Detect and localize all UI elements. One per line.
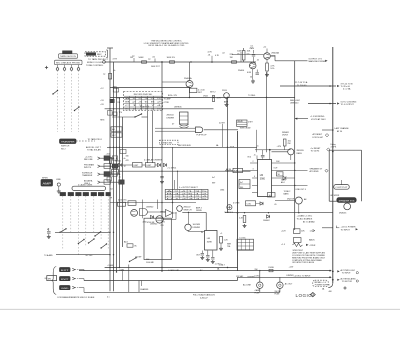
- svg-text:TO TAPE PROJ: TO TAPE PROJ: [88, 138, 102, 141]
- svg-text:IN: IN: [201, 232, 204, 234]
- svg-text:OUT: OUT: [196, 254, 201, 256]
- connector T7: [106, 192, 111, 195]
- svg-text:+12V: +12V: [289, 266, 294, 268]
- wire W-162: [161, 61, 162, 272]
- svg-text:4.7K: 4.7K: [234, 171, 239, 173]
- wire W-295: [294, 61, 296, 230]
- svg-text:1000 MF: 1000 MF: [146, 262, 155, 264]
- wire: [188, 230, 205, 233]
- svg-text:4 SET: 4 SET: [248, 121, 253, 123]
- svg-text:+12 VDC TO INPUT: +12 VDC TO INPUT: [294, 275, 312, 277]
- node page-edge: [0, 308, 400, 310]
- node chassis-box: [144, 218, 171, 264]
- node lbl-jmp: [247, 275, 294, 279]
- relay K11: [104, 164, 111, 169]
- wire: [342, 180, 348, 203]
- node Q2-label: [271, 51, 279, 57]
- capacitor C3: [250, 70, 259, 79]
- node lbl-w97: [168, 95, 256, 97]
- node line-lbl: [56, 179, 61, 181]
- node lbl-2n: [167, 114, 175, 119]
- capacitor C4: [180, 125, 189, 129]
- transistor Q5: [177, 206, 192, 212]
- wire BUS-A: [109, 48, 111, 291]
- wire: [182, 212, 206, 231]
- relay K8: [268, 193, 276, 198]
- svg-text:SEE: SEE: [227, 243, 232, 245]
- node caption-L2: [107, 296, 110, 298]
- svg-text:1N34: 1N34: [203, 95, 209, 97]
- connector T4: [83, 192, 89, 195]
- resistor R11: [239, 216, 247, 228]
- svg-text:NC 100: NC 100: [86, 255, 94, 257]
- node sym-moto: [225, 205, 234, 214]
- meter MTR1: [60, 268, 71, 272]
- node bus-top: [107, 47, 113, 49]
- svg-text:AT 50: AT 50: [337, 130, 343, 133]
- node lbl-mid1: [126, 155, 130, 162]
- svg-text:4.7K: 4.7K: [217, 97, 222, 99]
- resistor R6: [109, 74, 112, 80]
- node lbl-w108: [140, 106, 150, 109]
- svg-text:4 OHM: 4 OHM: [233, 202, 240, 204]
- node ann2: [280, 81, 353, 90]
- svg-text:GND: GND: [61, 288, 69, 290]
- node ann8: [310, 167, 329, 173]
- capacitor C8: [211, 251, 215, 264]
- svg-text:D 1 2 3 4 5: D 1 2 3 4 5: [167, 198, 208, 200]
- svg-text:FLIP FLOP: FLIP FLOP: [197, 135, 208, 137]
- svg-text:SET: SET: [212, 183, 216, 185]
- connector J2: [55, 60, 83, 64]
- node ann-br3: [332, 277, 359, 282]
- wire: [143, 200, 158, 219]
- svg-text:SET: SET: [112, 135, 117, 137]
- svg-text:GAIN: GAIN: [281, 179, 286, 182]
- svg-text:CHASSIS: CHASSIS: [140, 288, 149, 291]
- resistor R9: [272, 161, 296, 164]
- svg-text:MV: MV: [48, 278, 52, 280]
- node lbl-110a: [103, 70, 119, 115]
- svg-text:FUSE: FUSE: [275, 294, 281, 296]
- wire pin-163: [250, 162, 258, 164]
- capacitor C6: [200, 251, 204, 260]
- node lbl-reg2: [201, 232, 222, 235]
- svg-text:SPKR TEST: SPKR TEST: [293, 250, 304, 252]
- node arr1: [72, 268, 79, 271]
- wire W-254: [56, 254, 114, 255]
- svg-text:TP: TP: [103, 74, 106, 76]
- wire: [260, 271, 280, 293]
- svg-text:50V: 50V: [251, 48, 255, 50]
- svg-text:SET 2: SET 2: [210, 91, 216, 93]
- diode D2: [158, 163, 161, 166]
- svg-text:SWITCH: SWITCH: [61, 146, 70, 148]
- transistor Q3: [186, 81, 193, 88]
- wire: [79, 270, 84, 293]
- svg-text:4 x 2 3A: 4 x 2 3A: [343, 88, 351, 91]
- transistor Q1: [249, 62, 256, 69]
- node stub-110a: [107, 62, 110, 79]
- ground GND2: [265, 73, 269, 77]
- svg-text:4 SPK: 4 SPK: [331, 147, 337, 149]
- node row-182: [84, 180, 123, 186]
- svg-text:.01: .01: [208, 55, 212, 57]
- svg-text:+12: +12: [100, 88, 103, 90]
- svg-text:+12V: +12V: [277, 146, 282, 148]
- wire W-202: [110, 202, 196, 204]
- transistor Q7: [288, 149, 305, 155]
- svg-text:4x1: 4x1: [112, 129, 116, 131]
- relay K3: [180, 112, 189, 124]
- svg-text:OUT 2 LOGGING: OUT 2 LOGGING: [341, 101, 357, 103]
- svg-text:TRANSFER: TRANSFER: [82, 174, 93, 177]
- svg-text:D 2 4 2 6 8: D 2 4 2 6 8: [125, 109, 161, 111]
- node rrow2: [293, 238, 315, 243]
- node lbl-tt: [88, 138, 102, 141]
- svg-text:MIC LINE AUX PHONO: MIC LINE AUX PHONO: [56, 62, 80, 65]
- wire W-87: [110, 87, 191, 89]
- svg-text:5%: 5%: [247, 53, 250, 55]
- node NOTES: [292, 252, 326, 265]
- op-amp U4: [156, 216, 163, 223]
- node zener-lbls: [282, 132, 289, 137]
- svg-text:1.2K: 1.2K: [224, 240, 229, 242]
- relay K4: [219, 120, 257, 152]
- gate U6: [166, 210, 174, 217]
- node lbl-r4b: [237, 51, 242, 63]
- wire: [272, 152, 291, 160]
- wire W-227: [227, 98, 229, 213]
- node lbl-bus3: [110, 189, 113, 200]
- svg-text:2W: 2W: [288, 143, 291, 145]
- diode D7: [263, 215, 270, 222]
- relay K7: [112, 170, 119, 175]
- transistor Q10: [339, 203, 351, 214]
- svg-text:B 4 2 6 1 2: B 4 2 6 1 2: [167, 193, 208, 195]
- switch S7: [129, 257, 137, 262]
- svg-text:ADJ: ADJ: [281, 181, 285, 184]
- svg-text:AMP 4: AMP 4: [196, 207, 202, 210]
- svg-text:10K: 10K: [301, 231, 305, 233]
- capacitor C9: [256, 146, 265, 160]
- svg-text:2N404A: 2N404A: [184, 77, 192, 80]
- capacitor C5: [47, 228, 51, 239]
- svg-text:DRIVER: DRIVER: [193, 227, 201, 229]
- node dot-108: [109, 108, 114, 109]
- svg-text:+9V: +9V: [100, 104, 104, 106]
- svg-text:LM: LM: [207, 238, 210, 240]
- wire: [275, 201, 299, 213]
- wire W-266: [266, 72, 267, 152]
- svg-text:.02: .02: [222, 52, 225, 54]
- svg-text:25V: 25V: [162, 222, 166, 224]
- svg-text:4x SET: 4x SET: [219, 122, 226, 124]
- capacitor C2: [251, 46, 256, 62]
- svg-text:OUTPUT: OUTPUT: [336, 187, 349, 189]
- wire: [78, 70, 80, 132]
- svg-text:TO REG: TO REG: [248, 95, 256, 97]
- wire: [64, 70, 66, 132]
- svg-text:+5: +5: [220, 233, 222, 235]
- meter MTR3: [60, 286, 71, 290]
- svg-text:AUX FILL OUT 7: AUX FILL OUT 7: [86, 146, 102, 149]
- node lbl-mid2: [144, 159, 163, 162]
- svg-text:INPUT 4: INPUT 4: [84, 167, 91, 169]
- svg-text:4 OHM: 4 OHM: [108, 265, 114, 267]
- svg-text:.05: .05: [152, 57, 156, 59]
- node arr-r1: [313, 229, 315, 231]
- svg-text:330: 330: [126, 155, 129, 157]
- svg-text:TP: TP: [124, 166, 127, 168]
- svg-text:4x7: 4x7: [240, 182, 243, 184]
- svg-text:2N404A: 2N404A: [271, 51, 279, 54]
- svg-text:NO 2: NO 2: [61, 148, 67, 150]
- node lbl-gate2: [160, 211, 166, 213]
- svg-text:TL 200 40: TL 200 40: [297, 85, 307, 87]
- svg-text:VOLTS AT 240 F: VOLTS AT 240 F: [311, 118, 327, 121]
- node lbl-267: [200, 269, 203, 272]
- svg-text:+5 VDC: +5 VDC: [215, 264, 223, 266]
- node lbl-lm: [174, 106, 182, 108]
- node rrow1: [281, 229, 314, 234]
- svg-text:4x7: 4x7: [212, 177, 215, 179]
- gate U2: [196, 127, 239, 137]
- relay UNIT1: [133, 163, 143, 168]
- svg-text:TO AMP: TO AMP: [164, 97, 172, 100]
- node c-lbls: [203, 91, 221, 101]
- wire BUS-D: [119, 98, 121, 268]
- node OUT1-label: [309, 58, 328, 63]
- wire: [71, 70, 73, 132]
- meter MTR0: [45, 276, 57, 281]
- connector T5: [91, 192, 97, 195]
- svg-text:4 x RELAY DRIVERS: 4 x RELAY DRIVERS: [144, 159, 163, 162]
- node dots-272b: [116, 267, 120, 273]
- capacitor C1: [152, 57, 156, 62]
- svg-text:SPEAKER SYS: SPEAKER SYS: [339, 199, 355, 202]
- wire W-out1: [270, 56, 307, 61]
- svg-text:4A: 4A: [216, 144, 219, 147]
- wire: [70, 196, 72, 232]
- svg-text:TO 50 HZ: TO 50 HZ: [311, 150, 321, 152]
- wire W-97: [110, 97, 295, 98]
- node strip-lbl: [78, 184, 93, 187]
- svg-text:2: 2: [253, 161, 254, 163]
- svg-text:100K: 100K: [237, 51, 242, 53]
- jack JACK2: [275, 282, 294, 296]
- wire W-237: [237, 131, 239, 271]
- svg-text:1N4002: 1N4002: [263, 220, 270, 222]
- wire W-172b: [173, 147, 179, 218]
- svg-text:A 1 2 3 4 5: A 1 2 3 4 5: [125, 97, 161, 100]
- svg-text:50: 50: [250, 76, 252, 78]
- svg-text:4.7K: 4.7K: [208, 52, 213, 54]
- node row-166: [84, 164, 117, 170]
- svg-text:+12V: +12V: [281, 230, 286, 232]
- svg-text:TO ALL BOARDS: TO ALL BOARDS: [297, 217, 313, 220]
- wire: [57, 70, 59, 132]
- node lbl-alt: [219, 264, 226, 267]
- node lbl-ic-l: [226, 168, 243, 173]
- svg-text:4700 MF: 4700 MF: [147, 222, 155, 224]
- node lbl-12v2: [289, 266, 294, 268]
- node lbl-1M: [130, 57, 133, 59]
- wire: [76, 140, 95, 142]
- svg-text:AUDIO CONNECTOR: AUDIO CONNECTOR: [74, 188, 105, 191]
- wire pin-185r: [272, 185, 308, 186]
- node TP1: [132, 56, 161, 68]
- node TBL1: [124, 92, 163, 111]
- svg-text:SET: SET: [198, 92, 203, 94]
- fuse F1: [254, 267, 312, 278]
- wire: [225, 170, 251, 172]
- microphone M1: [57, 183, 61, 193]
- svg-text:3: 3: [253, 169, 254, 171]
- resistor R1: [139, 57, 152, 63]
- connector T6: [98, 192, 104, 195]
- node lbl-icl2: [212, 171, 228, 192]
- node caption-L: [58, 296, 96, 299]
- svg-text:100 MF: 100 MF: [135, 256, 142, 258]
- node bus-blob1: [112, 156, 117, 160]
- wire BUS-E: [122, 117, 124, 247]
- svg-text:OUT: OUT: [274, 168, 279, 170]
- svg-text:1N914: 1N914: [160, 211, 166, 213]
- node Q3-label: [184, 62, 192, 98]
- node xtal: [0, 0, 1, 1]
- svg-text:UNIT: UNIT: [134, 165, 139, 167]
- svg-text:4700: 4700: [143, 222, 147, 224]
- svg-text:B 2 4 6 8 2: B 2 4 6 8 2: [125, 101, 161, 103]
- amplifier A1: [41, 180, 53, 187]
- svg-text:INSTALL +5 V: INSTALL +5 V: [314, 281, 327, 284]
- op-amp U8: [258, 160, 272, 197]
- svg-text:RECORD PLAY SEL: RECORD PLAY SEL: [134, 93, 153, 96]
- svg-text:RE: RE: [118, 102, 121, 104]
- switch TRANSFER: [60, 139, 77, 144]
- svg-text:4Ω SPKR: 4Ω SPKR: [330, 195, 339, 197]
- svg-text:2N2222: 2N2222: [184, 207, 192, 209]
- svg-text:4 TRACK SEL: 4 TRACK SEL: [161, 142, 172, 145]
- svg-text:LM: LM: [260, 175, 263, 177]
- svg-text:AT 2.5 A MAX: AT 2.5 A MAX: [303, 221, 315, 224]
- pin P2: [63, 68, 66, 71]
- svg-text:+12 AND +5 VDC: +12 AND +5 VDC: [297, 214, 313, 217]
- node TBL2: [165, 187, 208, 200]
- svg-text:1W: 1W: [230, 57, 233, 59]
- wire: [93, 196, 95, 232]
- wire: [107, 196, 109, 250]
- svg-text:IN 4: IN 4: [248, 157, 251, 159]
- node cap-162: [160, 177, 164, 184]
- node lbl-303: [296, 189, 306, 191]
- svg-text:TO 4 OUTPUT: TO 4 OUTPUT: [341, 104, 355, 106]
- node caption-FS: [193, 294, 215, 300]
- svg-text:1N759: 1N759: [282, 135, 289, 137]
- svg-text:25 T-10 TO A: 25 T-10 TO A: [295, 81, 308, 84]
- node lbl-47: [47, 229, 49, 231]
- svg-text:TP: TP: [110, 198, 113, 200]
- svg-text:SPEAKER SY: SPEAKER SY: [310, 167, 323, 170]
- svg-text:PB: PB: [118, 98, 121, 100]
- node lbl-tape2: [230, 147, 235, 149]
- relay K2: [189, 88, 205, 94]
- relay K6: [111, 133, 122, 137]
- svg-text:+1.5: +1.5: [281, 244, 286, 246]
- node adj-row: [124, 241, 137, 248]
- svg-text:1N34: 1N34: [220, 189, 224, 191]
- svg-text:REF LINE: REF LINE: [84, 159, 93, 161]
- svg-text:4x: 4x: [119, 176, 121, 178]
- node note-b: [87, 62, 104, 64]
- wire: [155, 128, 196, 131]
- svg-text:4.7K: 4.7K: [215, 55, 220, 57]
- wire: [148, 212, 177, 219]
- node sw-col3: [78, 239, 85, 244]
- wire pin-192: [252, 192, 258, 194]
- svg-text:SEE +5 AT: SEE +5 AT: [290, 99, 300, 102]
- wire: [123, 265, 142, 293]
- node lbl-pwr: [314, 281, 330, 287]
- node bus-blob4: [119, 180, 124, 184]
- svg-text:RELAY: RELAY: [237, 120, 243, 123]
- svg-text:+12: +12: [263, 46, 266, 48]
- wire W-267: [105, 265, 238, 272]
- connector STRIP: [72, 186, 106, 190]
- node row-174: [82, 173, 120, 178]
- svg-text:100K 5%: 100K 5%: [167, 57, 176, 59]
- svg-text:JUMPER: JUMPER: [286, 275, 294, 277]
- svg-text:TO TAPE PROJECT: TO TAPE PROJECT: [88, 58, 109, 61]
- connector T1: [60, 192, 66, 195]
- node Q1-label: [238, 70, 252, 74]
- pin P3: [70, 68, 73, 71]
- node TITLE: [144, 41, 189, 48]
- svg-text:MONO / DOLBY: MONO / DOLBY: [87, 62, 104, 64]
- regulator U7: [205, 231, 218, 251]
- wire W-147: [107, 147, 257, 148]
- node lbl-112: [113, 59, 118, 61]
- node out-rounded: [334, 185, 349, 190]
- svg-text:4 TR: 4 TR: [113, 59, 118, 61]
- node lbl-k4t: [240, 127, 252, 130]
- node lbl-amp4: [224, 100, 229, 103]
- switch S6: [94, 231, 101, 236]
- wire: [77, 196, 79, 255]
- wire pin-178: [252, 177, 258, 179]
- node brace: [52, 267, 57, 295]
- wire BUS-C: [116, 88, 118, 273]
- node blob-120: [107, 149, 126, 181]
- relay K14: [239, 180, 250, 190]
- svg-text:FULL SCALE DATA 10%: FULL SCALE DATA 10%: [193, 294, 215, 297]
- svg-text:COIL: COIL: [247, 204, 253, 206]
- ground GND1: [251, 80, 255, 84]
- transistor Q2: [264, 53, 271, 60]
- node ann-br2: [332, 269, 359, 274]
- svg-text:JUMPER: JUMPER: [247, 277, 255, 279]
- node lbl-bus2: [100, 100, 122, 122]
- node lbl-out: [196, 254, 201, 256]
- node lbl-vv2: [303, 221, 315, 224]
- svg-text:4-300-07: 4-300-07: [200, 298, 208, 300]
- speaker SPKR: [337, 198, 356, 203]
- node ann5: [322, 127, 349, 133]
- svg-text:1N4001: 1N4001: [115, 160, 122, 162]
- svg-text:100 MW: 100 MW: [193, 224, 201, 226]
- node dot-97b: [189, 97, 214, 98]
